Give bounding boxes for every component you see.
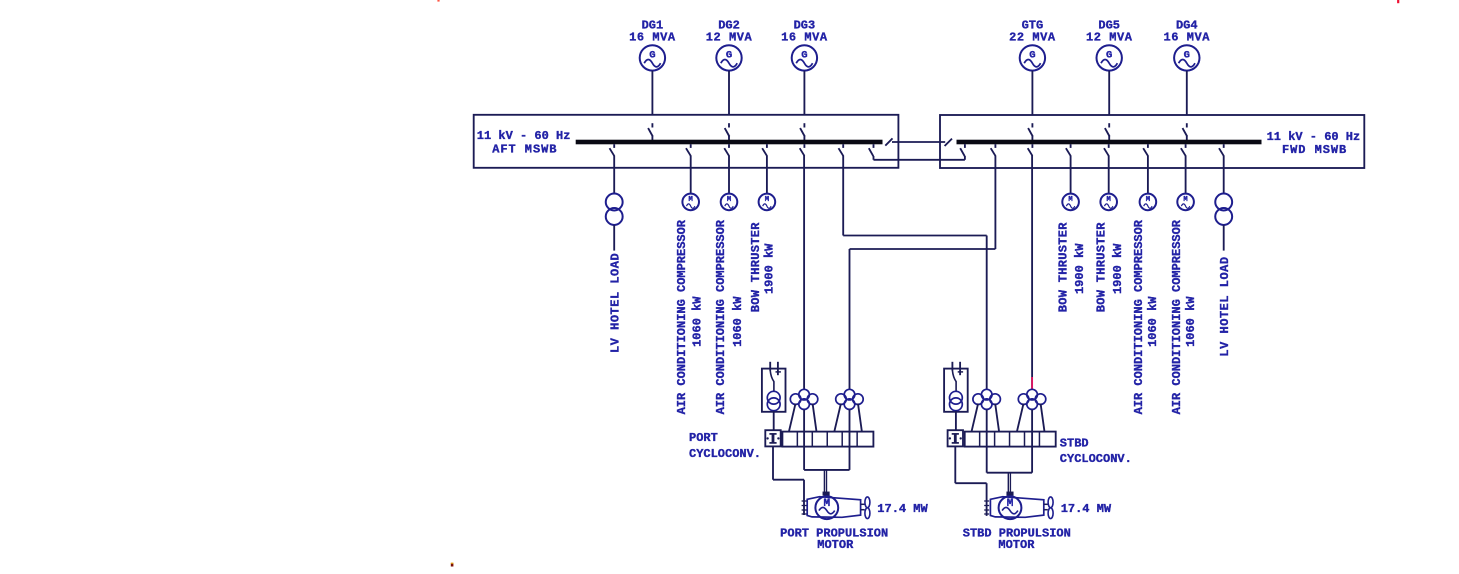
motor bow thruster FWD 2 bbox=[1100, 194, 1117, 211]
wire to compressor motor 2 bbox=[728, 156, 730, 194]
circuit breaker GTG bbox=[1028, 123, 1033, 140]
transformer LV hotel load AFT bbox=[606, 194, 623, 225]
motor bow thruster AFT bbox=[759, 194, 776, 211]
label AIR CONDITIONING COMPRESSOR 3 bbox=[1132, 219, 1160, 414]
wire stbd exciter output bbox=[955, 447, 986, 516]
wire below LV transformer AFT bbox=[613, 225, 615, 251]
svg-text:1900 kW: 1900 kW bbox=[1111, 243, 1125, 294]
wire DG3 to switchboard bbox=[803, 71, 805, 116]
svg-text:11 kV - 60 Hz: 11 kV - 60 Hz bbox=[1267, 130, 1361, 144]
wire DG4 to switchboard bbox=[1186, 71, 1188, 116]
exciter cell stbd cycloconverter bbox=[948, 430, 963, 446]
propeller PORT bbox=[865, 497, 870, 519]
circuit breaker air conditioning compressor 2 bbox=[724, 144, 729, 156]
wire GTG to switchboard bbox=[1031, 71, 1033, 116]
svg-text:AIR CONDITIONING COMPRESSOR: AIR CONDITIONING COMPRESSOR bbox=[675, 219, 689, 414]
svg-text:BOW THRUSTER: BOW THRUSTER bbox=[749, 222, 763, 313]
red dot top left bbox=[437, 0, 439, 2]
generator DG2 12 MVA bbox=[716, 45, 741, 70]
wire to compressor motor 3 bbox=[1147, 156, 1149, 194]
wire port transformer 1 through cycloconverter bbox=[803, 410, 805, 470]
svg-text:11 kV - 60 Hz: 11 kV - 60 Hz bbox=[477, 129, 571, 143]
wire stbd cycloconverter output bbox=[987, 472, 1032, 474]
svg-text:AIR CONDITIONING COMPRESSOR: AIR CONDITIONING COMPRESSOR bbox=[1170, 219, 1184, 414]
bus tie wire upper bbox=[892, 141, 945, 143]
circuit breaker DG2 bbox=[725, 123, 730, 140]
circuit breaker air conditioning compressor 1 bbox=[686, 144, 691, 156]
label DG5 12 MVA bbox=[1086, 19, 1133, 45]
generator DG4 16 MVA bbox=[1174, 45, 1199, 70]
generator DG3 16 MVA bbox=[792, 45, 817, 70]
label STBD PROPULSION MOTOR bbox=[963, 526, 1071, 552]
wire stbd transformer 1 through cycloconverter bbox=[986, 410, 988, 473]
svg-text:M: M bbox=[1183, 196, 1187, 204]
svg-text:17.4 MW: 17.4 MW bbox=[877, 502, 928, 516]
label AIR CONDITIONING COMPRESSOR 1 bbox=[675, 219, 705, 414]
svg-text:STBD: STBD bbox=[1060, 437, 1089, 451]
exciter cell port cycloconverter bbox=[765, 430, 780, 446]
wire to bow thruster motor FWD 2 bbox=[1108, 156, 1110, 194]
wire port exciter output bbox=[773, 447, 804, 516]
wire to bow thruster motor AFT bbox=[766, 156, 768, 194]
wire to compressor motor 1 bbox=[690, 156, 692, 194]
circuit breaker LV hotel load AFT bbox=[610, 144, 615, 156]
svg-text:1060 kW: 1060 kW bbox=[691, 296, 705, 347]
motor air conditioning compressor 4 bbox=[1177, 194, 1194, 211]
bus tie breaker AFT side upper bbox=[885, 138, 892, 145]
generator DG5 12 MVA bbox=[1097, 45, 1122, 70]
AFT switchboard enclosure bbox=[474, 115, 899, 168]
label GTG 22 MVA bbox=[1009, 19, 1056, 45]
svg-text:1060 kW: 1060 kW bbox=[1146, 296, 1160, 347]
transformer stbd propulsion transformer 2 bbox=[1018, 389, 1045, 409]
svg-text:CYCLOCONV.: CYCLOCONV. bbox=[1060, 452, 1132, 466]
motor air conditioning compressor 3 bbox=[1140, 194, 1157, 211]
red mark on stbd feed bbox=[1031, 377, 1033, 390]
wire to LV transformer AFT bbox=[613, 156, 615, 194]
wire port motor drop bbox=[823, 470, 829, 495]
svg-text:BOW THRUSTER: BOW THRUSTER bbox=[1095, 222, 1109, 313]
circuit breaker air conditioning compressor 4 bbox=[1181, 144, 1186, 156]
circuit breaker DG3 bbox=[800, 123, 805, 140]
svg-text:M: M bbox=[1146, 196, 1150, 204]
svg-text:16 MVA: 16 MVA bbox=[629, 31, 676, 45]
wire port exciter to exciter cell bbox=[773, 411, 775, 431]
propulsion motor PORT bbox=[802, 496, 865, 519]
svg-text:PORT: PORT bbox=[689, 431, 718, 445]
wire port cycloconverter output bbox=[804, 469, 849, 471]
svg-text:AIR CONDITIONING COMPRESSOR: AIR CONDITIONING COMPRESSOR bbox=[714, 219, 728, 414]
FWD busbar bbox=[957, 140, 1262, 145]
svg-text:AFT MSWB: AFT MSWB bbox=[492, 143, 557, 157]
label FWD MSWB bbox=[1267, 130, 1361, 157]
generator DG1 16 MVA bbox=[640, 45, 665, 70]
svg-text:LV HOTEL LOAD: LV HOTEL LOAD bbox=[609, 253, 623, 353]
circuit breaker bow thruster FWD 2 bbox=[1104, 144, 1109, 156]
transformer port propulsion transformer 2 bbox=[836, 389, 864, 409]
svg-text:M: M bbox=[689, 196, 693, 204]
wires stbd propulsion transformer 2 to cycloconverter bbox=[1017, 404, 1045, 432]
wires stbd propulsion transformer 1 to cycloconverter bbox=[972, 404, 1000, 432]
red tick top right bbox=[1397, 0, 1399, 3]
svg-text:MOTOR: MOTOR bbox=[817, 538, 854, 552]
bus tie breaker FWD side upper bbox=[945, 139, 952, 146]
wire below LV transformer FWD bbox=[1223, 225, 1225, 251]
svg-text:M: M bbox=[727, 196, 731, 204]
motor bow thruster FWD 1 bbox=[1062, 194, 1079, 211]
label DG1 16 MVA bbox=[629, 19, 676, 45]
wire DG2 to switchboard bbox=[728, 71, 730, 116]
label LV HOTEL LOAD FWD bbox=[1218, 256, 1232, 356]
wire DG1 to switchboard bbox=[651, 71, 653, 116]
label LV HOTEL LOAD AFT bbox=[609, 253, 623, 353]
FWD switchboard enclosure bbox=[940, 115, 1364, 168]
label AIR CONDITIONING COMPRESSOR 4 bbox=[1170, 219, 1198, 414]
svg-text:12 MVA: 12 MVA bbox=[1086, 31, 1133, 45]
circuit breaker DG5 bbox=[1105, 123, 1110, 140]
svg-text:1900 kW: 1900 kW bbox=[1073, 243, 1087, 294]
label DG3 16 MVA bbox=[781, 19, 828, 45]
wire DG5 to switchboard bbox=[1108, 71, 1110, 116]
wire to bow thruster motor FWD 1 bbox=[1070, 156, 1072, 194]
svg-text:16 MVA: 16 MVA bbox=[1164, 31, 1211, 45]
svg-text:1900 kW: 1900 kW bbox=[762, 243, 776, 294]
transformer stbd propulsion transformer 1 bbox=[973, 389, 1000, 409]
motor air conditioning compressor 1 bbox=[682, 194, 699, 211]
transformer LV hotel load FWD bbox=[1215, 194, 1232, 225]
label DG2 12 MVA bbox=[706, 19, 753, 45]
wire to LV transformer FWD bbox=[1223, 156, 1225, 194]
svg-text:17.4 MW: 17.4 MW bbox=[1061, 502, 1112, 516]
label 17.4 MW STBD bbox=[1061, 502, 1112, 516]
circuit breaker DG1 bbox=[648, 123, 653, 140]
label PORT CYCLOCONV. bbox=[689, 431, 761, 461]
wire stbd exciter to exciter cell bbox=[955, 411, 957, 431]
svg-text:MOTOR: MOTOR bbox=[998, 538, 1035, 552]
circuit breaker air conditioning compressor 3 bbox=[1143, 144, 1148, 156]
svg-text:BOW THRUSTER: BOW THRUSTER bbox=[1057, 222, 1071, 313]
wire stbd transformer 2 through cycloconverter bbox=[1031, 410, 1033, 473]
AFT busbar bbox=[576, 140, 883, 145]
transformer port propulsion transformer 1 bbox=[790, 389, 818, 409]
label STBD CYCLOCONV. bbox=[1060, 437, 1132, 466]
wire AFT bus to stbd transformer 1 bbox=[843, 156, 987, 390]
label DG4 16 MVA bbox=[1164, 19, 1211, 45]
label PORT PROPULSION MOTOR bbox=[780, 526, 888, 552]
bus tie lower with breakers bbox=[869, 144, 965, 160]
label BOW THRUSTER FWD 1 bbox=[1057, 222, 1088, 313]
svg-text:M: M bbox=[1068, 196, 1072, 204]
svg-text:1060 kW: 1060 kW bbox=[731, 296, 745, 347]
circuit breaker stbd propulsion feed bbox=[1028, 144, 1033, 156]
circuit breaker bow thruster FWD 1 bbox=[1066, 144, 1071, 156]
cycloconverter cell stack stbd cycloconverter bbox=[965, 432, 1056, 447]
label 17.4 MW PORT bbox=[877, 502, 928, 516]
excitation transformer port exciter bbox=[762, 362, 786, 412]
propeller STBD bbox=[1048, 497, 1053, 519]
circuit breaker LV hotel load FWD bbox=[1219, 144, 1224, 156]
svg-text:22 MVA: 22 MVA bbox=[1009, 31, 1056, 45]
wire FWD bus to port transformer 2 bbox=[850, 156, 996, 390]
wires port propulsion transformer 1 to cycloconverter bbox=[789, 404, 817, 432]
generator GTG 22 MVA bbox=[1020, 45, 1045, 70]
circuit breaker crossover FWD to PORT bbox=[991, 144, 996, 156]
motor air conditioning compressor 2 bbox=[721, 194, 738, 211]
svg-text:M: M bbox=[765, 196, 769, 204]
svg-text:1060 kW: 1060 kW bbox=[1184, 296, 1198, 347]
svg-text:LV HOTEL LOAD: LV HOTEL LOAD bbox=[1218, 256, 1232, 356]
wires port propulsion transformer 2 to cycloconverter bbox=[834, 404, 862, 432]
wire FWD bus to stbd transformer 2 bbox=[1031, 156, 1033, 390]
svg-text:FWD MSWB: FWD MSWB bbox=[1282, 143, 1347, 157]
dark red dot bottom bbox=[451, 563, 454, 567]
cycloconverter cell stack port cycloconverter bbox=[782, 432, 873, 447]
circuit breaker DG4 bbox=[1183, 123, 1188, 140]
excitation transformer stbd exciter bbox=[944, 362, 968, 412]
label BOW THRUSTER AFT bbox=[749, 222, 776, 313]
wire port transformer 2 through cycloconverter bbox=[849, 410, 851, 470]
wire stbd motor drop bbox=[1007, 473, 1013, 495]
label AFT MSWB bbox=[477, 129, 571, 156]
svg-text:CYCLOCONV.: CYCLOCONV. bbox=[689, 447, 761, 461]
circuit breaker crossover AFT to STBD bbox=[839, 144, 844, 156]
circuit breaker port propulsion feed bbox=[800, 144, 805, 156]
wire AFT bus to port transformer 1 bbox=[803, 156, 805, 390]
wire to compressor motor 4 bbox=[1185, 156, 1187, 194]
svg-text:AIR CONDITIONING COMPRESSOR: AIR CONDITIONING COMPRESSOR bbox=[1132, 219, 1146, 414]
propulsion motor STBD bbox=[984, 496, 1048, 519]
label BOW THRUSTER FWD 2 bbox=[1095, 222, 1126, 313]
svg-text:16 MVA: 16 MVA bbox=[781, 31, 828, 45]
label AIR CONDITIONING COMPRESSOR 2 bbox=[714, 219, 745, 414]
svg-text:12 MVA: 12 MVA bbox=[706, 31, 753, 45]
svg-text:M: M bbox=[1107, 196, 1111, 204]
circuit breaker bow thruster AFT bbox=[762, 144, 767, 156]
